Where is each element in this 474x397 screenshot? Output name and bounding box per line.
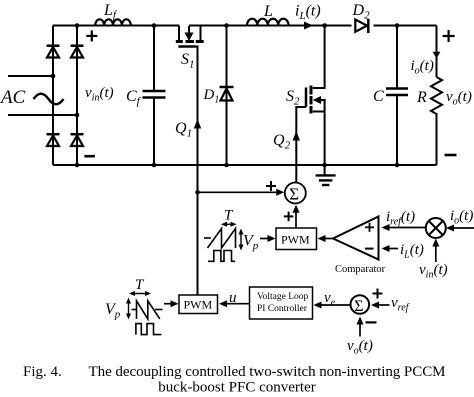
label + after bridge bbox=[86, 30, 97, 41]
arrow into summer A left bbox=[276, 189, 284, 196]
svg-text:io(t): io(t) bbox=[450, 208, 473, 227]
resistor R bbox=[431, 77, 442, 114]
arrow Vp amplitude B bbox=[128, 300, 130, 317]
arrow T period A bbox=[223, 223, 236, 225]
svg-text:vo(t): vo(t) bbox=[446, 89, 472, 108]
svg-text:Comparator: Comparator bbox=[335, 264, 386, 275]
svg-text:R: R bbox=[416, 89, 427, 106]
square wave A bbox=[208, 251, 235, 262]
node D1 top bbox=[224, 23, 229, 28]
svg-text:C: C bbox=[373, 88, 384, 105]
diode bridge lower-right bbox=[71, 134, 84, 146]
transistor S2 body arrow bbox=[313, 96, 321, 104]
arrow Vp amplitude A bbox=[240, 231, 242, 248]
arrow iL into comparator bbox=[382, 245, 390, 252]
diode D1 bbox=[220, 26, 234, 166]
label + comparator input bbox=[365, 223, 374, 232]
label + summer A left bbox=[266, 181, 276, 191]
PWM block B bbox=[179, 295, 218, 314]
svg-text:Σ: Σ bbox=[354, 298, 363, 315]
PWM block A bbox=[276, 228, 317, 250]
diode bridge lower-left bbox=[47, 134, 60, 146]
wire iL(t) into comparator - bbox=[385, 248, 398, 250]
wire bottom rail bbox=[53, 164, 437, 166]
wire top rail after D2 bbox=[374, 25, 437, 27]
wire top rail right (S1 to output corner) bbox=[189, 25, 352, 27]
AC sine symbol bbox=[34, 94, 64, 105]
wire vref into summer B bbox=[374, 304, 390, 306]
svg-text:vo(t): vo(t) bbox=[347, 338, 373, 357]
svg-text:Voltage Loop: Voltage Loop bbox=[257, 292, 309, 302]
wire top rail left (bridge to S1) bbox=[53, 25, 179, 27]
ground bbox=[316, 165, 336, 185]
wire bridge left vertical bbox=[52, 26, 54, 166]
svg-text:PWM: PWM bbox=[184, 298, 213, 312]
arrow vref into summer B bbox=[371, 302, 379, 309]
svg-text:vin(t): vin(t) bbox=[85, 85, 114, 104]
wire PWM-A output up to summer A bbox=[295, 208, 297, 228]
inductor L bbox=[247, 19, 289, 26]
svg-text:AC: AC bbox=[0, 87, 26, 108]
label - comparator input bbox=[365, 248, 374, 250]
arrow Q2 up on gate wire bbox=[293, 131, 300, 141]
wire iref from multiplier to comparator bbox=[385, 227, 426, 229]
node AC lower to bridge bbox=[75, 113, 80, 118]
wire io(t) into multiplier bbox=[449, 227, 474, 229]
diode D2 bbox=[355, 19, 368, 33]
wire S1 gate drive (Q1 net) bbox=[196, 47, 198, 296]
node S2 drain top bbox=[322, 23, 327, 28]
svg-text:iL(t): iL(t) bbox=[295, 3, 321, 23]
arrow vin into multiplier bbox=[432, 239, 439, 247]
arrow T period B bbox=[131, 293, 149, 295]
node AC upper to bridge bbox=[51, 74, 56, 79]
wire AC upper lead bbox=[8, 75, 53, 77]
node D1 bottom bbox=[224, 163, 229, 168]
wire comparator output to PWM A bbox=[321, 238, 333, 240]
arrow iL on rail bbox=[304, 22, 313, 30]
arrow vo into summer B bbox=[357, 317, 364, 325]
svg-text:buck-boost PFC converter: buck-boost PFC converter bbox=[158, 380, 315, 396]
label - output bbox=[445, 154, 457, 157]
multiplier (circle-X) bbox=[426, 218, 446, 238]
arrow io into multiplier bbox=[446, 225, 454, 232]
wire output right branch bbox=[436, 26, 438, 166]
wire Q1 branch to summer S-A bbox=[198, 191, 280, 193]
label - after bridge bbox=[84, 155, 95, 158]
node Cf bottom bbox=[152, 163, 157, 168]
wire S2 gate drive (Q2 net) bbox=[296, 107, 306, 182]
wire vin(t) into multiplier bbox=[435, 241, 437, 262]
summing junction B (voltage error) bbox=[351, 295, 370, 314]
block voltage loop PI controller bbox=[250, 287, 313, 319]
label - summer B bbox=[366, 321, 377, 323]
svg-text:io(t): io(t) bbox=[411, 58, 434, 77]
svg-text:vin(t): vin(t) bbox=[419, 262, 448, 281]
arrow Q1 up on gate wire bbox=[194, 119, 201, 129]
diode bridge upper-left bbox=[47, 46, 60, 58]
arrow u into PWM B bbox=[219, 300, 227, 307]
wire PI controller to PWM B bbox=[222, 303, 250, 305]
wire vo(t) into summer B bbox=[359, 319, 361, 337]
arrow into summer A bottom bbox=[293, 205, 300, 213]
svg-text:Σ: Σ bbox=[289, 185, 299, 204]
sawtooth waveform B bbox=[132, 301, 163, 319]
diode bridge upper-right bbox=[71, 46, 84, 58]
node Cf top bbox=[152, 23, 157, 28]
label + summer B bbox=[373, 289, 383, 299]
arrow iref into comparator + bbox=[382, 224, 390, 231]
wire AC lower lead bbox=[8, 114, 77, 116]
arrow into PWM A right bbox=[318, 235, 326, 242]
node bridge top-right junction bbox=[75, 23, 80, 28]
transistor S1 (MOSFET on top rail) bbox=[176, 26, 204, 47]
arrow ve into PI controller bbox=[314, 302, 322, 309]
label + summer A bottom bbox=[284, 212, 294, 222]
transistor S1 body arrow bbox=[185, 33, 194, 42]
node S2 source bottom bbox=[322, 163, 327, 168]
node C top bbox=[395, 23, 400, 28]
svg-text:iL(t): iL(t) bbox=[400, 242, 424, 261]
wire summer B to PI controller bbox=[317, 304, 351, 306]
svg-text:Fig. 4.: Fig. 4. bbox=[23, 364, 62, 380]
summing junction A (Q2 sum) bbox=[285, 183, 306, 204]
wire bridge right vertical bbox=[76, 26, 78, 166]
node Q1 branch junction bbox=[195, 190, 200, 195]
capacitor C bbox=[386, 26, 408, 166]
arrow sawtooth B into PWM B bbox=[164, 303, 175, 305]
svg-text:The decoupling controlled two-: The decoupling controlled two-switch non… bbox=[89, 364, 446, 380]
svg-text:PWM: PWM bbox=[281, 233, 310, 247]
sawtooth waveform A bbox=[204, 229, 236, 249]
arrow sawtooth A into PWM A bbox=[260, 238, 272, 240]
capacitor Cf bbox=[143, 26, 166, 166]
node bridge bottom-right junction bbox=[75, 163, 80, 168]
label + output bbox=[443, 30, 455, 42]
arrow io(t) down bbox=[433, 52, 441, 59]
inductor Lf bbox=[95, 19, 131, 25]
square wave B bbox=[136, 324, 162, 335]
node C bottom bbox=[395, 163, 400, 168]
svg-text:L: L bbox=[263, 3, 273, 20]
comparator U1 bbox=[333, 217, 379, 260]
svg-text:PI Controller: PI Controller bbox=[257, 304, 308, 314]
transistor S2 (vertical MOSFET) bbox=[306, 26, 326, 166]
